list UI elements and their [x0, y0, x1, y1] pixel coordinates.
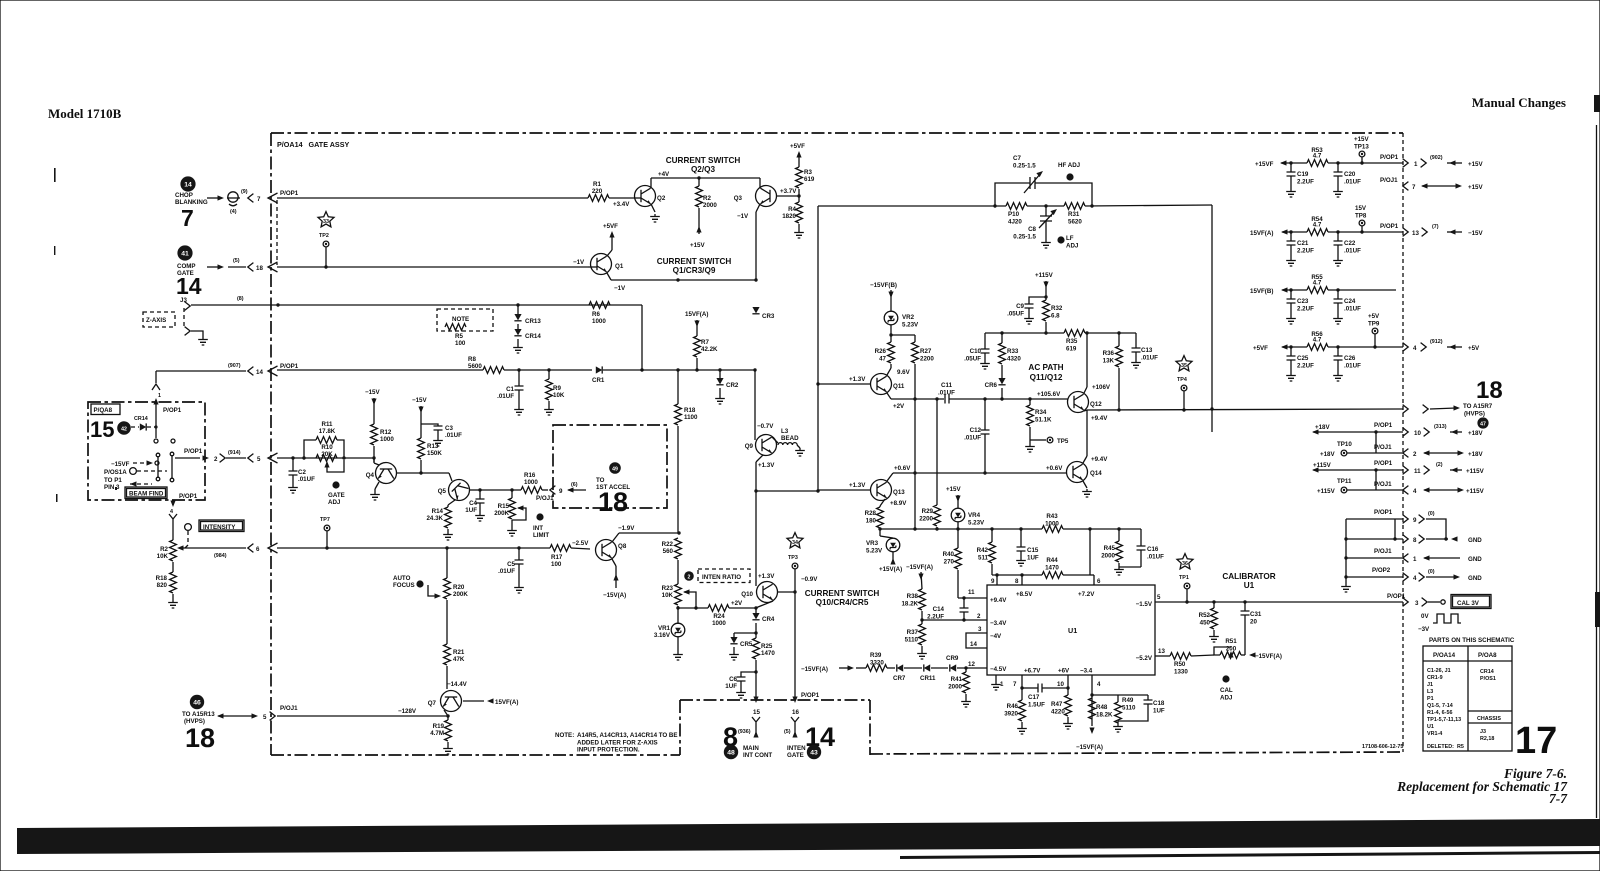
svg-text:R35: R35	[1066, 338, 1078, 345]
svg-text:P/OP1: P/OP1	[1374, 460, 1393, 467]
node 41 comp gate circled number	[177, 245, 192, 260]
svg-text:TP7: TP7	[320, 517, 330, 523]
svg-text:5600: 5600	[468, 363, 482, 370]
transistor Q9	[756, 435, 777, 456]
svg-text:34: 34	[792, 540, 798, 546]
svg-text:C25: C25	[1297, 355, 1309, 362]
svg-text:C19: C19	[1297, 171, 1309, 178]
svg-text:2200: 2200	[919, 516, 933, 523]
diode CR1	[596, 366, 602, 373]
adjust int limit	[536, 513, 543, 520]
svg-text:CR14: CR14	[134, 416, 148, 422]
svg-text:+7.2V: +7.2V	[1078, 591, 1095, 598]
svg-text:C12: C12	[970, 427, 982, 434]
resistor R38 18.2K	[919, 589, 926, 610]
svg-text:(5): (5)	[233, 258, 240, 264]
svg-text:−15V: −15V	[1468, 230, 1483, 237]
capacitor C18 1UF	[1147, 695, 1149, 700]
svg-text:C23: C23	[1297, 298, 1309, 305]
svg-text:+3.4V: +3.4V	[613, 201, 630, 208]
wire pin6 row into schematic	[277, 547, 550, 549]
ground Q2 emitter	[650, 214, 660, 222]
svg-text:R28: R28	[865, 510, 877, 517]
svg-text:C1: C1	[506, 386, 514, 393]
svg-text:1470: 1470	[761, 650, 775, 657]
resistor R45 2000	[1118, 529, 1120, 541]
svg-text:15VF(B): 15VF(B)	[1250, 288, 1273, 295]
zener VR3 5.23V	[880, 536, 893, 538]
svg-text:−14.4V: −14.4V	[447, 681, 468, 688]
wire +1.3V bus vertical	[817, 384, 819, 491]
wire VR3/VR4 row	[880, 528, 1042, 530]
wire corner to P/QA8	[155, 371, 157, 383]
svg-text:CALIBRATOR: CALIBRATOR	[1222, 572, 1275, 581]
svg-text:GND: GND	[1468, 556, 1482, 563]
svg-text:U1: U1	[1244, 581, 1255, 590]
capacitor C10 .05UF	[984, 333, 986, 349]
svg-text:R18: R18	[684, 407, 696, 414]
svg-text:+2V: +2V	[731, 600, 743, 607]
svg-text:P/OP1: P/OP1	[280, 363, 299, 370]
svg-text:3920: 3920	[1004, 711, 1018, 718]
svg-text:Model 1710B: Model 1710B	[48, 106, 122, 121]
wire (907) row main	[277, 369, 483, 371]
wire AC path top row	[985, 332, 1064, 334]
svg-text:−128V: −128V	[398, 708, 417, 715]
svg-text:560: 560	[663, 548, 674, 555]
Z-AXIS box	[143, 312, 175, 327]
svg-text:−15VF(A): −15VF(A)	[1255, 653, 1282, 660]
svg-text:R37: R37	[907, 629, 919, 636]
wire pin2 row	[922, 619, 987, 621]
svg-text:24.3K: 24.3K	[426, 515, 443, 522]
svg-text:+8.5V: +8.5V	[1016, 591, 1033, 598]
svg-text:C16: C16	[1147, 546, 1159, 553]
svg-text:(984): (984)	[214, 553, 227, 559]
resistor R5 100	[445, 324, 466, 331]
zener VR2 5.23V	[884, 311, 898, 325]
resistor R13 150K	[418, 438, 425, 459]
capacitor C24 .01UF	[1337, 290, 1339, 299]
pin 18 chevron	[248, 263, 254, 272]
potentiometer R15 200K	[511, 490, 513, 498]
svg-text:L3: L3	[781, 428, 789, 435]
svg-text:C20: C20	[1344, 171, 1356, 178]
svg-text:.01UF: .01UF	[1344, 306, 1361, 313]
svg-text:P/OJ1: P/OJ1	[1374, 548, 1392, 555]
resistor R37 5110	[919, 624, 926, 645]
svg-text:COMP: COMP	[177, 263, 196, 270]
wire arrow chop blanking	[207, 197, 220, 199]
svg-text:5620: 5620	[1068, 219, 1082, 226]
svg-text:5: 5	[257, 456, 261, 463]
svg-text:450: 450	[1200, 620, 1211, 627]
svg-text:Q1/CR3/Q9: Q1/CR3/Q9	[673, 266, 716, 275]
star test point 33	[318, 212, 334, 227]
+5VF feed Q1 collector	[607, 250, 612, 256]
svg-text:INTEN: INTEN	[787, 745, 806, 752]
resistor R34 51.1K	[1029, 399, 1031, 405]
wire (984) row 6	[183, 547, 246, 549]
svg-text:Q2/Q3: Q2/Q3	[691, 165, 716, 174]
svg-text:Q10: Q10	[741, 591, 753, 598]
svg-text:+15V: +15V	[1468, 184, 1483, 191]
transistor Q12	[1068, 392, 1089, 413]
svg-text:.01UF: .01UF	[298, 476, 315, 483]
svg-text:R13: R13	[427, 443, 439, 450]
resistor R47 4220	[1065, 695, 1072, 716]
svg-text:2: 2	[977, 613, 981, 620]
wire R29 column	[936, 399, 938, 505]
svg-text:C31: C31	[1250, 611, 1262, 618]
capacitor C5 .01UF	[517, 546, 520, 549]
resistor R7 42.2K	[694, 336, 701, 357]
resistor R25 1470	[753, 638, 760, 659]
svg-text:+6V: +6V	[1058, 668, 1070, 675]
svg-text:C21: C21	[1297, 240, 1309, 247]
svg-text:511: 511	[978, 555, 989, 562]
svg-text:CR3: CR3	[762, 313, 775, 320]
svg-text:(4): (4)	[230, 209, 237, 215]
svg-text:C8: C8	[1028, 226, 1036, 233]
svg-text:(HVPS): (HVPS)	[1464, 411, 1485, 418]
svg-text:R7: R7	[701, 339, 709, 346]
svg-text:9: 9	[559, 488, 563, 495]
star test point 35	[1176, 356, 1192, 371]
resistor P10 4J20	[1006, 203, 1027, 210]
wire Q9 base column	[754, 370, 756, 440]
svg-text:2.2UF: 2.2UF	[927, 614, 944, 621]
svg-text:15V: 15V	[1355, 205, 1367, 212]
ground CR14	[513, 345, 523, 353]
svg-text:R33: R33	[1007, 348, 1019, 355]
svg-text:−3V: −3V	[1418, 626, 1430, 633]
wire Q5 collector row	[480, 489, 521, 491]
svg-text:ADJ: ADJ	[328, 499, 341, 506]
connector arrow P/OP1 pin7	[268, 193, 278, 203]
resistor R17 100	[550, 545, 571, 552]
svg-text:+115V: +115V	[1313, 462, 1332, 469]
svg-text:C10: C10	[970, 348, 982, 355]
svg-text:18.2K: 18.2K	[901, 601, 918, 608]
transistor Q14	[1067, 462, 1088, 483]
resistor R42 511	[991, 529, 993, 542]
svg-text:1470: 1470	[1045, 565, 1059, 572]
svg-text:+115V: +115V	[1466, 488, 1485, 495]
svg-text:C2: C2	[298, 469, 306, 476]
svg-text:6: 6	[256, 546, 260, 553]
svg-text:7: 7	[1013, 681, 1017, 688]
svg-text:1UF: 1UF	[725, 683, 737, 690]
svg-text:R46: R46	[1007, 703, 1019, 710]
variable capacitor C7 0.25-1.5	[995, 183, 1030, 206]
wire GND verticals	[1345, 519, 1347, 584]
svg-text:619: 619	[1066, 346, 1077, 353]
svg-text:3: 3	[978, 626, 982, 633]
svg-text:TP11: TP11	[1337, 478, 1352, 485]
svg-text:CR1: CR1	[592, 377, 605, 384]
wire chop blanking to R1	[277, 197, 588, 199]
svg-text:.01UF: .01UF	[1344, 179, 1361, 186]
svg-text:CR1-9: CR1-9	[1427, 675, 1443, 681]
svg-text:P/OP1: P/OP1	[801, 692, 820, 699]
svg-text:18: 18	[256, 265, 263, 272]
ground J3	[191, 331, 203, 337]
test point TP11	[1375, 470, 1377, 490]
svg-text:R26: R26	[875, 348, 887, 355]
svg-text:13: 13	[1158, 648, 1165, 655]
svg-text:C6: C6	[729, 676, 737, 683]
zener VR1 3.16V	[677, 623, 679, 624]
svg-text:C1-26, J1: C1-26, J1	[1427, 668, 1451, 674]
svg-text:(912): (912)	[1430, 339, 1443, 345]
ground Q4	[370, 492, 380, 500]
svg-text:4220: 4220	[1051, 709, 1065, 716]
svg-text:R9: R9	[553, 385, 561, 392]
BEAM FIND box	[125, 487, 167, 499]
svg-text:R38: R38	[907, 593, 919, 600]
svg-text:R5: R5	[455, 333, 463, 340]
svg-text:R2,18: R2,18	[1480, 736, 1494, 742]
svg-text:2000: 2000	[948, 684, 962, 691]
svg-text:Replacement for Schematic 17: Replacement for Schematic 17	[1396, 779, 1568, 794]
svg-text:R36: R36	[1103, 350, 1115, 357]
svg-text:R23: R23	[662, 585, 674, 592]
svg-text:15VF(A): 15VF(A)	[495, 699, 518, 706]
U1 bottom pins	[995, 675, 997, 682]
diode CR14	[517, 324, 519, 329]
svg-text:−1.9V: −1.9V	[618, 525, 635, 532]
capacitor C1 .01UF	[517, 368, 520, 371]
svg-text:1.5UF: 1.5UF	[1028, 702, 1045, 709]
svg-text:R32: R32	[1051, 305, 1063, 312]
svg-text:R31: R31	[1068, 211, 1080, 218]
svg-text:1000: 1000	[712, 620, 726, 627]
svg-text:150K: 150K	[427, 450, 442, 457]
svg-text:+15V: +15V	[690, 242, 705, 249]
right edge scan line	[1596, 125, 1598, 818]
svg-text:Z-AXIS: Z-AXIS	[146, 317, 166, 324]
svg-text:AC PATH: AC PATH	[1028, 363, 1063, 372]
pin 16 exit	[792, 697, 797, 704]
svg-text:49: 49	[612, 467, 618, 473]
svg-text:GATE: GATE	[787, 752, 804, 759]
transistor Q11	[871, 374, 892, 395]
svg-text:C7: C7	[1013, 155, 1021, 162]
capacitor C4 1UF	[478, 488, 481, 491]
svg-text:100: 100	[455, 340, 466, 347]
resistor R19 4.7M	[447, 716, 449, 720]
svg-text:Q5: Q5	[438, 488, 447, 495]
svg-text:HF ADJ: HF ADJ	[1058, 162, 1081, 169]
svg-text:+115V: +115V	[1466, 468, 1485, 475]
svg-text:R1: R1	[593, 181, 601, 188]
svg-text:2200: 2200	[920, 356, 934, 363]
svg-text:5: 5	[1157, 594, 1161, 601]
capacitor C12 .01UF	[984, 399, 986, 430]
capacitor C15 1UF	[1020, 529, 1022, 547]
wire +1.3V to Q13 base	[756, 490, 818, 492]
svg-text:CHOP: CHOP	[175, 192, 193, 199]
svg-text:P/QA8: P/QA8	[94, 407, 113, 414]
transistor Q13	[871, 480, 892, 501]
capacitor C23 2.2UF	[1290, 290, 1292, 299]
svg-text:−15V: −15V	[365, 389, 380, 396]
star test point 36	[1177, 554, 1193, 569]
svg-text:+0.6V: +0.6V	[1046, 465, 1063, 472]
U1 top pins	[996, 575, 998, 585]
svg-text:P/OJ1: P/OJ1	[1380, 177, 1398, 184]
svg-text:820: 820	[157, 582, 168, 589]
dashed box 1st accel	[553, 425, 667, 508]
svg-text:P/OP1: P/OP1	[1380, 223, 1399, 230]
connector pin4 +5V	[1403, 343, 1409, 352]
svg-text:18: 18	[185, 723, 215, 753]
svg-text:17108-606-12-75: 17108-606-12-75	[1362, 744, 1403, 750]
wire comp gate to Q1	[277, 266, 588, 268]
connector J coax symbol	[227, 192, 240, 206]
svg-text:5.23V: 5.23V	[866, 548, 883, 555]
svg-text:4: 4	[1413, 575, 1417, 582]
svg-text:CURRENT SWITCH: CURRENT SWITCH	[657, 257, 732, 266]
svg-text:10: 10	[1414, 430, 1421, 437]
capacitor C14 2.2UF	[958, 597, 987, 599]
arrow to pin5 P/OJ1	[217, 713, 224, 718]
svg-text:R29: R29	[922, 508, 934, 515]
svg-text:16: 16	[792, 709, 799, 716]
svg-text:11: 11	[1414, 468, 1421, 475]
svg-text:17.8K: 17.8K	[319, 428, 336, 435]
svg-text:15VF(A): 15VF(A)	[685, 311, 708, 318]
svg-text:P/OP1: P/OP1	[1374, 509, 1393, 516]
svg-text:(0): (0)	[1428, 511, 1435, 517]
transistor Q3	[756, 186, 777, 207]
svg-text:4J20: 4J20	[1008, 219, 1022, 226]
svg-text:(936): (936)	[738, 729, 751, 735]
svg-text:20: 20	[1250, 619, 1257, 626]
svg-text:Q1-5, 7-14: Q1-5, 7-14	[1427, 703, 1453, 709]
svg-text:+18V: +18V	[1468, 451, 1483, 458]
svg-text:3320: 3320	[870, 660, 884, 667]
svg-text:3: 3	[1415, 600, 1419, 607]
svg-text:R3: R3	[804, 169, 812, 176]
resistor R29 2200	[934, 505, 941, 526]
svg-text:C22: C22	[1344, 240, 1356, 247]
svg-text:+15V: +15V	[1468, 161, 1483, 168]
svg-text:7: 7	[257, 196, 261, 203]
svg-text:−15V(A): −15V(A)	[603, 592, 626, 599]
wire pins 9/8/6 row	[992, 574, 1042, 576]
svg-text:15: 15	[90, 417, 114, 442]
test point TP4	[1181, 385, 1187, 391]
svg-text:+9.4V: +9.4V	[990, 597, 1007, 604]
INTEN RATIO dashed box	[698, 569, 750, 583]
svg-text:−4V: −4V	[990, 633, 1002, 640]
svg-text:INT: INT	[533, 525, 543, 532]
schematic border P/OA14	[271, 132, 1403, 134]
svg-text:18: 18	[598, 487, 628, 517]
svg-text:NOTE: NOTE	[452, 316, 469, 323]
diode CR4	[752, 613, 759, 620]
svg-text:3.16V: 3.16V	[654, 632, 671, 639]
svg-text:0V: 0V	[1421, 613, 1429, 620]
svg-text:TP2: TP2	[319, 233, 329, 239]
resistor R26 47	[888, 342, 895, 363]
svg-text:(6): (6)	[571, 482, 578, 488]
svg-text:4: 4	[1413, 488, 1417, 495]
svg-text:6: 6	[1097, 578, 1101, 585]
svg-text:C24: C24	[1344, 298, 1356, 305]
svg-text:C3: C3	[445, 425, 453, 432]
svg-text:4: 4	[170, 509, 173, 515]
svg-text:41: 41	[181, 251, 189, 258]
switch contacts	[154, 439, 158, 443]
svg-text:+18V: +18V	[1468, 430, 1483, 437]
svg-text:−3.4V: −3.4V	[990, 620, 1007, 627]
svg-text:+5V: +5V	[1468, 345, 1480, 352]
capacitor C9 .05UF	[1029, 297, 1046, 304]
svg-text:PARTS ON THIS SCHEMATIC: PARTS ON THIS SCHEMATIC	[1429, 637, 1515, 644]
svg-text:J3: J3	[1480, 729, 1486, 735]
wire HV column to output row	[1211, 205, 1213, 432]
svg-text:C14: C14	[933, 606, 945, 613]
resistor R32 6.8	[1043, 300, 1050, 321]
node 47 circled	[1477, 417, 1488, 428]
svg-text:CR2: CR2	[726, 382, 739, 389]
svg-text:P/OP1: P/OP1	[184, 448, 203, 455]
svg-text:1000: 1000	[1045, 521, 1059, 528]
svg-text:9: 9	[1413, 517, 1417, 524]
svg-text:INTENSITY: INTENSITY	[203, 524, 236, 531]
wire J3 to schematic	[191, 304, 642, 306]
svg-text:14: 14	[184, 182, 192, 189]
svg-text:+18V: +18V	[1320, 451, 1335, 458]
svg-text:11: 11	[968, 589, 975, 596]
svg-text:1: 1	[1414, 161, 1418, 168]
node 2 circled	[684, 571, 694, 581]
svg-text:−1V: −1V	[573, 259, 585, 266]
svg-text:2: 2	[1413, 451, 1417, 458]
svg-text:U1: U1	[1068, 626, 1077, 635]
svg-text:P/OJ1: P/OJ1	[536, 495, 554, 502]
svg-text:Manual Changes: Manual Changes	[1472, 95, 1566, 110]
svg-text:1330: 1330	[1174, 669, 1188, 676]
svg-text:R11: R11	[321, 421, 333, 428]
svg-text:R50: R50	[1174, 661, 1186, 668]
svg-text:Q13: Q13	[893, 489, 905, 496]
variable capacitor C8 0.25-1.5	[1045, 206, 1047, 216]
capacitor C25 2.2UF	[1290, 347, 1292, 356]
resistor R52 450	[1213, 602, 1215, 608]
svg-text:.05UF: .05UF	[1007, 311, 1024, 318]
svg-text:R21: R21	[453, 649, 465, 656]
svg-text:48: 48	[727, 750, 735, 757]
svg-text:Q10/CR4/CR5: Q10/CR4/CR5	[816, 598, 869, 607]
+15V feed under R2	[698, 208, 700, 234]
svg-text:GND: GND	[1468, 537, 1482, 544]
ground R4	[794, 230, 804, 238]
wire Q11 emitter +2V row	[891, 398, 944, 400]
svg-text:−2.5V: −2.5V	[572, 540, 589, 547]
resistor R36 13K	[1118, 333, 1120, 346]
svg-text:TP8: TP8	[1355, 213, 1367, 220]
svg-text:R14: R14	[432, 508, 444, 515]
svg-text:+4V: +4V	[658, 171, 670, 178]
connector arrow pin18	[268, 262, 278, 272]
svg-text:L3: L3	[1427, 689, 1433, 695]
svg-text:−3.4: −3.4	[1080, 668, 1093, 675]
svg-text:−15VF(A): −15VF(A)	[1076, 744, 1103, 751]
